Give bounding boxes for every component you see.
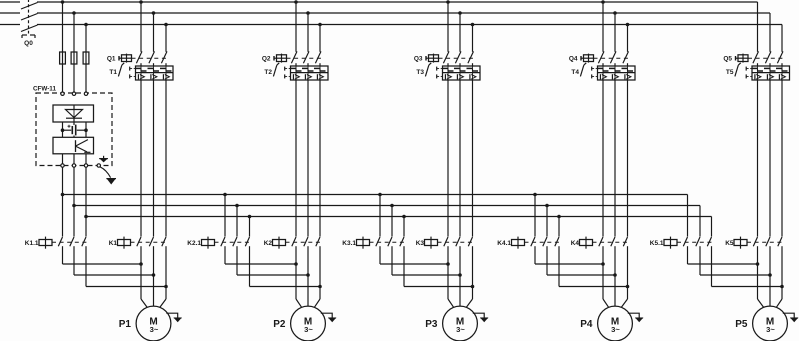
overload relay T1 (109, 63, 173, 80)
wire supply drop group 4 phase 1 (601, 0, 605, 52)
contactor K4 (571, 237, 629, 249)
wire CFW input phase 2 (72, 11, 76, 92)
wire K2.1 output to node phase 3 (250, 246, 321, 286)
wire supply drop group 2 phase 1 (294, 0, 298, 52)
wire breaker to overload group 3 phase 2 (459, 63, 461, 66)
wire overload to contactor K4 phase 3 (627, 80, 629, 237)
motor M2 3-phase (291, 306, 326, 341)
junction node group 5 phase 2 (768, 273, 772, 277)
ground motor M2 (321, 313, 336, 321)
svg-text:3~: 3~ (611, 325, 620, 334)
svg-text:P2: P2 (273, 319, 286, 330)
wire overload to contactor K4 phase 2 (614, 80, 616, 237)
wire breaker to overload group 5 phase 2 (769, 63, 771, 66)
wire drive bus tap K3.1 phase 1 (378, 193, 382, 237)
wire supply drop group 2 phase 2 (306, 11, 310, 52)
svg-text:Q1: Q1 (107, 56, 116, 63)
circuit breaker Q5 (723, 51, 783, 63)
svg-text:Q0: Q0 (24, 40, 33, 47)
junction node group 1 phase 1 (139, 262, 143, 266)
wire K3.1 output to node phase 2 (392, 246, 460, 275)
disconnect switch Q0 (21, 0, 38, 38)
svg-text:K5.1: K5.1 (650, 240, 664, 247)
wire breaker to overload group 2 phase 2 (307, 63, 309, 66)
junction node group 4 phase 3 (626, 285, 630, 289)
wire K4.1 output to node phase 2 (547, 246, 615, 275)
wire supply drop group 3 phase 1 (446, 0, 450, 52)
wire bus L1 (0, 1, 758, 3)
wire supply drop group 1 phase 3 (164, 23, 168, 52)
wire overload to contactor K1 phase 2 (153, 80, 155, 237)
wire motor leads P1 (141, 246, 166, 307)
wire drive bus tap K3.1 phase 2 (390, 204, 394, 237)
wire overload to contactor K5 phase 2 (769, 80, 771, 237)
svg-text:K4.1: K4.1 (497, 240, 511, 247)
wire overload to contactor K4 phase 1 (602, 80, 604, 237)
svg-text:P3: P3 (425, 319, 438, 330)
junction node group 1 phase 3 (164, 285, 168, 289)
wire supply drop group 3 phase 3 (471, 23, 475, 52)
overload relay T3 (416, 63, 480, 80)
svg-text:Q4: Q4 (569, 56, 578, 63)
wire drive bus tap K4.1 phase 1 (533, 193, 537, 237)
wire overload to contactor K2 phase 3 (319, 80, 321, 237)
wire drive bus tap K4.1 phase 3 (557, 215, 561, 237)
terminal U/V/W output 2 (72, 164, 75, 167)
wire overload to contactor K2 phase 2 (307, 80, 309, 237)
wire breaker to overload group 1 phase 3 (165, 63, 167, 66)
wire breaker to overload group 3 phase 3 (472, 63, 474, 66)
junction node group 5 phase 1 (756, 262, 760, 266)
wire overload to contactor K1 phase 3 (165, 80, 167, 237)
wire breaker to overload group 3 phase 1 (447, 63, 449, 66)
wire supply drop group 4 phase 2 (613, 11, 617, 52)
wire overload to contactor K5 phase 3 (781, 80, 783, 237)
wire breaker to overload group 5 phase 1 (757, 63, 759, 66)
wire breaker to overload group 4 phase 1 (602, 63, 604, 66)
wire drive bus tap K1.1 phase 2 (72, 167, 76, 236)
svg-text:K5: K5 (725, 240, 734, 247)
wire drive bus tap K1.1 phase 3 (84, 167, 88, 236)
wire breaker to overload group 4 phase 3 (627, 63, 629, 66)
wire K1.1 output to node phase 2 (74, 246, 154, 275)
wire supply drop group 5 phase 2 (769, 13, 771, 52)
svg-text:3~: 3~ (304, 325, 313, 334)
fuse F1 (60, 52, 66, 64)
contactor K3 (416, 237, 474, 249)
circuit breaker Q3 (414, 51, 474, 63)
terminal PE (97, 164, 100, 167)
ground motor M5 (783, 313, 798, 321)
contactor K5 (725, 237, 783, 249)
wire K3.1 output to node phase 3 (404, 246, 473, 286)
wire motor leads P2 (296, 246, 320, 307)
wire K4.1 output to node phase 3 (559, 246, 628, 286)
terminal U/V/W output 1 (61, 164, 64, 167)
capacitor DC bus (68, 122, 76, 137)
overload relay T5 (726, 63, 790, 80)
svg-text:T3: T3 (416, 69, 424, 76)
motor M1 3-phase (136, 306, 171, 341)
junction node group 4 phase 2 (613, 273, 617, 277)
junction node group 1 phase 2 (152, 273, 156, 277)
wire K2.1 output to node phase 2 (237, 246, 308, 275)
wire breaker to overload group 2 phase 3 (319, 63, 321, 66)
wire supply drop group 1 phase 1 (139, 0, 143, 52)
junction node group 2 phase 2 (306, 273, 310, 277)
motor M4 3-phase (598, 306, 633, 341)
ground motor M3 (473, 313, 488, 321)
svg-text:K3: K3 (416, 240, 425, 247)
wire K2.1 output to node phase 1 (225, 246, 296, 264)
terminal R/S/T input 3 (84, 92, 87, 95)
svg-text:T1: T1 (109, 69, 117, 76)
wire drive bus tap K2.1 phase 2 (235, 204, 239, 237)
wire breaker to overload group 2 phase 1 (295, 63, 297, 66)
circuit breaker Q1 (107, 51, 168, 63)
wire motor leads P5 (758, 246, 783, 307)
wire supply drop group 3 phase 2 (458, 11, 462, 52)
wire supply drop group 4 phase 3 (626, 23, 630, 52)
svg-text:T5: T5 (726, 69, 734, 76)
junction node group 3 phase 1 (446, 262, 450, 266)
wire drive bus tap K2.1 phase 3 (248, 215, 252, 237)
junction node group 3 phase 3 (471, 285, 475, 289)
wire supply drop group 1 phase 2 (152, 11, 156, 52)
wire bus L3 (0, 24, 782, 26)
wire DC link negative (77, 122, 88, 137)
svg-text:K3.1: K3.1 (342, 240, 356, 247)
motor M5 3-phase (753, 306, 788, 341)
svg-text:Q3: Q3 (414, 56, 423, 63)
motor M3 3-phase (443, 306, 478, 341)
wire K5.1 output to node phase 2 (700, 246, 770, 275)
svg-text:Q5: Q5 (723, 56, 732, 63)
junction node group 4 phase 1 (601, 262, 605, 266)
wire breaker to overload group 4 phase 2 (614, 63, 616, 66)
wire K5.1 output to node phase 1 (688, 246, 758, 264)
contactor K1.1 (25, 237, 88, 249)
terminal R/S/T input 2 (72, 92, 75, 95)
wire overload to contactor K2 phase 1 (295, 80, 297, 237)
junction node group 5 phase 3 (780, 285, 784, 289)
wire CFW input phase 3 (84, 23, 88, 92)
terminal R/S/T input 1 (61, 92, 64, 95)
wire K4.1 output to node phase 1 (535, 246, 603, 264)
circuit breaker Q2 (262, 51, 322, 63)
contactor K3.1 (342, 237, 405, 249)
wire overload to contactor K3 phase 1 (447, 80, 449, 237)
svg-text:3~: 3~ (150, 325, 159, 334)
contactor K2 (264, 237, 322, 249)
wire drive bus tap K5.1 phase 2 (699, 206, 701, 237)
wire overload to contactor K3 phase 3 (472, 80, 474, 237)
svg-text:K2: K2 (264, 240, 273, 247)
overload relay T4 (571, 63, 635, 80)
wire K5.1 output to node phase 3 (712, 246, 783, 286)
svg-text:3~: 3~ (456, 325, 465, 334)
svg-text:P4: P4 (580, 319, 593, 330)
circuit breaker Q4 (569, 51, 629, 63)
wire supply drop group 5 phase 1 (757, 2, 759, 52)
wire supply drop group 2 phase 3 (318, 23, 322, 52)
wire breaker to overload group 5 phase 3 (781, 63, 783, 66)
svg-text:CFW-11: CFW-11 (33, 86, 56, 93)
wire drive bus tap K3.1 phase 3 (402, 215, 406, 237)
svg-text:K1.1: K1.1 (25, 240, 39, 247)
fuse F3 (83, 52, 89, 64)
svg-text:K1: K1 (109, 240, 118, 247)
wire supply drop group 5 phase 3 (781, 25, 783, 52)
contactor K4.1 (497, 237, 560, 249)
frequency inverter CFW-11 enclosure (36, 93, 112, 166)
junction node group 2 phase 1 (294, 262, 298, 266)
overload relay T2 (264, 63, 328, 80)
wire inverter output bus U (63, 194, 688, 196)
wire drive bus tap K5.1 phase 1 (687, 195, 689, 237)
junction node group 2 phase 3 (318, 285, 322, 289)
wire inverter output bus V (74, 205, 700, 207)
svg-text:Q2: Q2 (262, 56, 271, 63)
wire breaker to overload group 1 phase 2 (153, 63, 155, 66)
wire K1.1 output to node phase 1 (63, 246, 142, 264)
ground motor M1 (166, 313, 181, 321)
contactor K1 (109, 237, 168, 249)
wire overload to contactor K3 phase 2 (459, 80, 461, 237)
wire inverter output bus W (86, 216, 712, 218)
wire overload to contactor K5 phase 1 (757, 80, 759, 237)
wire motor leads P3 (448, 246, 473, 307)
wire drive bus tap K2.1 phase 1 (223, 193, 227, 237)
svg-text:3~: 3~ (766, 325, 775, 334)
wire K3.1 output to node phase 1 (380, 246, 448, 264)
wire drive bus tap K1.1 phase 1 (61, 167, 65, 236)
rectifier bridge (53, 105, 94, 122)
svg-text:T2: T2 (264, 69, 272, 76)
svg-text:P5: P5 (735, 319, 748, 330)
wire breaker to overload group 1 phase 1 (140, 63, 142, 66)
junction node group 3 phase 2 (458, 273, 462, 277)
contactor K5.1 (650, 237, 713, 249)
fuse F2 (71, 52, 77, 64)
svg-text:P1: P1 (119, 319, 132, 330)
wire bus L2 (0, 12, 770, 14)
wire K1.1 output to node phase 3 (86, 246, 166, 286)
svg-text:K4: K4 (571, 240, 580, 247)
ground external with lead (100, 167, 116, 184)
contactor K2.1 (187, 237, 251, 249)
inverter IGBT bridge (53, 137, 94, 165)
ground motor M4 (628, 313, 643, 321)
svg-text:T4: T4 (571, 69, 579, 76)
wire DC link positive (61, 122, 71, 137)
terminal U/V/W output 3 (84, 164, 87, 167)
ground internal PE (99, 156, 108, 162)
wire motor leads P4 (603, 246, 628, 307)
wire drive bus tap K4.1 phase 2 (545, 204, 549, 237)
wire drive bus tap K5.1 phase 3 (711, 217, 713, 237)
svg-text:K2.1: K2.1 (187, 240, 201, 247)
wire CFW input phase 1 (61, 0, 65, 92)
wire overload to contactor K1 phase 1 (140, 80, 142, 237)
